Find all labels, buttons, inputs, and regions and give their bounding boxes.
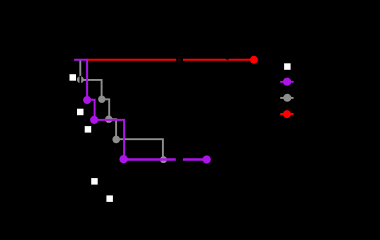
red end marker [250,56,258,64]
legend gray entry [280,97,293,99]
notch on red line [226,56,229,59]
purple end marker M4 [203,155,211,163]
legend white square [284,63,291,70]
gray step curve (series 3) [80,61,163,160]
legend [280,63,293,118]
purple marker M3 [119,155,127,163]
purple step curve (series 2) [74,60,124,160]
purple marker M2 [90,116,98,124]
gray marker g2 [98,96,105,103]
black censoring marks (invisible series overlays) [80,56,230,164]
gray marker g5 [160,156,167,163]
white square markers (series 1) [70,74,113,202]
legend red entry [280,113,293,115]
gray marker g1 [77,76,84,83]
faint dark smudge inside red gap [178,58,181,61]
purple marker M1 [83,96,91,104]
purple bottom line [124,158,203,161]
gap in red line [176,56,183,64]
legend purple entry [280,81,293,83]
slot over gray marker g1 [80,76,82,84]
red survival line (series 4) [87,59,251,61]
gap in purple bottom line [176,156,183,164]
gray marker g3 [105,116,112,123]
gray marker g4 [112,136,120,144]
